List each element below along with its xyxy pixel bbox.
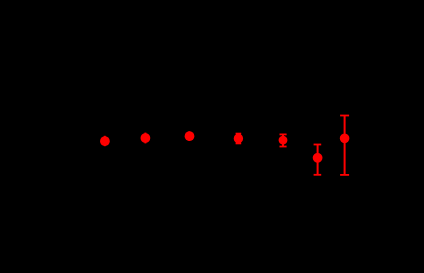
data point P4 <box>234 134 243 143</box>
data point P2 <box>141 133 151 143</box>
error bar P3 <box>188 131 190 141</box>
data point P3 <box>185 131 195 141</box>
data point P5 <box>279 136 288 145</box>
error bar P2 <box>144 133 146 144</box>
error bar P7 <box>340 116 349 175</box>
data point P6 <box>313 153 323 163</box>
error bar P4 <box>236 134 242 144</box>
error bar P1 <box>104 136 106 146</box>
data point P7 <box>340 134 350 144</box>
data point P1 <box>100 136 110 146</box>
error bar P5 <box>280 134 287 146</box>
error bar P6 <box>314 145 322 175</box>
